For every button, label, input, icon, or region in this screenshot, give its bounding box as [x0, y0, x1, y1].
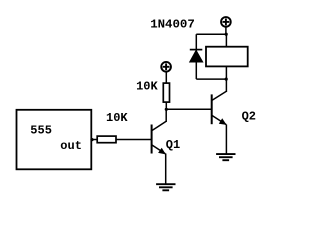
wire relay coil to bottom node	[225, 66, 227, 79]
power +V supply P2	[161, 62, 171, 72]
wire Q2 collector diagonal	[212, 91, 227, 100]
wire 555 out to R1	[91, 139, 97, 141]
wire Q2 emitter to ground	[225, 125, 227, 155]
svg-text:Q2: Q2	[242, 110, 256, 124]
wire R1 to Q1 base	[116, 139, 152, 141]
svg-text:Q1: Q1	[166, 138, 180, 152]
555 timer block U1	[17, 110, 92, 170]
wire loop top horizontal	[196, 33, 226, 35]
svg-text:out: out	[60, 139, 82, 153]
node R2/Q1 collector junction	[165, 108, 168, 111]
wire Q2 collector vertical	[225, 79, 227, 92]
diode D1 1N4007	[190, 50, 203, 62]
wire Q1 collector vertical	[165, 109, 167, 122]
wire P2 to R2	[165, 72, 167, 83]
wire P1 down to top node	[225, 27, 227, 34]
wire loop left vertical	[195, 34, 197, 79]
ground GND1	[156, 184, 175, 190]
ground GND2	[216, 154, 235, 160]
wire Q1 emitter diagonal	[152, 145, 166, 154]
svg-text:10K: 10K	[106, 111, 128, 125]
svg-text:555: 555	[30, 123, 52, 137]
resistor R2 10K vertical	[163, 83, 169, 102]
node top loop junction	[225, 33, 228, 36]
wire Q2 emitter diagonal	[212, 115, 227, 124]
node bottom loop junction	[225, 78, 228, 81]
wire loop bottom horizontal	[196, 78, 226, 80]
wire Q1 emitter to ground	[165, 154, 167, 185]
relay coil K1	[206, 47, 248, 67]
svg-text:1N4007: 1N4007	[150, 18, 195, 32]
wire R2 bottom to node	[165, 102, 167, 109]
resistor R1 10K horizontal	[97, 136, 116, 143]
arrow Q2 emitter	[219, 118, 227, 125]
transistor Q1 base bar	[151, 125, 153, 154]
wire Q1 collector diagonal	[152, 121, 167, 131]
node 555 output pin	[90, 138, 93, 141]
wire top node to relay coil	[225, 34, 227, 47]
transistor Q2 base bar	[211, 94, 213, 124]
arrow Q1 emitter	[158, 148, 166, 155]
svg-text:10K: 10K	[136, 79, 158, 93]
power +V supply P1	[221, 17, 231, 27]
wire node to Q2 base	[166, 108, 211, 110]
